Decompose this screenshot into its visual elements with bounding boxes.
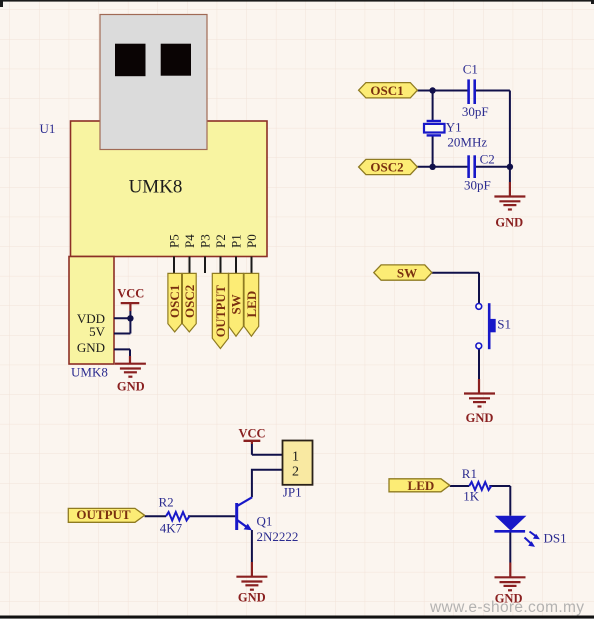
svg-text:SW: SW bbox=[397, 265, 417, 280]
svg-text:SW: SW bbox=[229, 294, 244, 314]
svg-text:OUTPUT: OUTPUT bbox=[214, 285, 228, 338]
svg-text:OSC1: OSC1 bbox=[370, 83, 403, 98]
svg-text:DS1: DS1 bbox=[544, 531, 567, 546]
svg-text:P3: P3 bbox=[197, 234, 212, 248]
svg-text:GND: GND bbox=[466, 411, 494, 425]
svg-text:P2: P2 bbox=[213, 234, 228, 248]
svg-text:1: 1 bbox=[292, 449, 299, 464]
svg-text:30pF: 30pF bbox=[462, 104, 489, 119]
svg-text:www.e-shore.com.my: www.e-shore.com.my bbox=[429, 599, 584, 616]
svg-text:30pF: 30pF bbox=[464, 178, 491, 193]
svg-text:U1: U1 bbox=[40, 121, 56, 136]
svg-text:VCC: VCC bbox=[117, 287, 144, 301]
svg-text:C2: C2 bbox=[480, 152, 495, 167]
svg-text:C1: C1 bbox=[463, 61, 478, 76]
svg-text:UMK8: UMK8 bbox=[71, 364, 108, 379]
svg-text:OSC1: OSC1 bbox=[167, 285, 182, 318]
svg-text:P0: P0 bbox=[244, 234, 259, 248]
svg-text:OSC2: OSC2 bbox=[370, 159, 403, 174]
svg-text:LED: LED bbox=[244, 291, 259, 318]
svg-text:P1: P1 bbox=[228, 234, 243, 248]
svg-text:5V: 5V bbox=[89, 324, 106, 339]
svg-text:S1: S1 bbox=[497, 317, 511, 332]
svg-text:4K7: 4K7 bbox=[160, 520, 183, 535]
svg-text:P4: P4 bbox=[182, 234, 197, 248]
svg-text:R1: R1 bbox=[462, 466, 477, 481]
svg-text:1K: 1K bbox=[463, 489, 480, 504]
svg-text:UMK8: UMK8 bbox=[129, 176, 183, 197]
svg-text:JP1: JP1 bbox=[283, 485, 302, 500]
svg-text:R2: R2 bbox=[159, 494, 174, 509]
svg-text:LED: LED bbox=[408, 478, 435, 493]
svg-text:GND: GND bbox=[495, 215, 523, 229]
svg-text:2N2222: 2N2222 bbox=[257, 529, 299, 544]
svg-text:2: 2 bbox=[292, 465, 299, 480]
svg-text:P5: P5 bbox=[166, 234, 181, 248]
svg-text:GND: GND bbox=[117, 380, 145, 394]
svg-text:GND: GND bbox=[77, 340, 105, 355]
svg-text:VCC: VCC bbox=[238, 426, 265, 440]
svg-text:Y1: Y1 bbox=[446, 120, 462, 135]
svg-text:OSC2: OSC2 bbox=[182, 285, 197, 318]
svg-text:20MHz: 20MHz bbox=[447, 135, 487, 150]
svg-text:Q1: Q1 bbox=[257, 514, 273, 529]
svg-text:GND: GND bbox=[238, 591, 266, 605]
svg-text:OUTPUT: OUTPUT bbox=[76, 507, 131, 522]
